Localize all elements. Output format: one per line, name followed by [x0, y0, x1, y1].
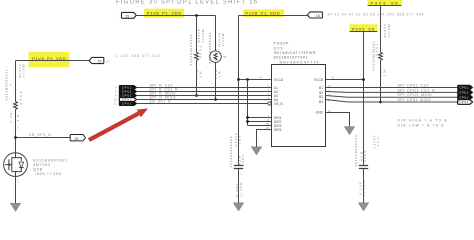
svg-text:CPU1: CPU1	[460, 87, 469, 90]
connector tag SPI_CPU1_MOSI	[458, 95, 473, 100]
net highlight P1V8_P1_VDD (top left)	[144, 9, 184, 18]
svg-text:15: 15	[125, 14, 129, 18]
svg-text:2N7002: 2N7002	[33, 163, 50, 167]
svg-text:-,60V,+/-20V: -,60V,+/-20V	[33, 172, 62, 176]
wire P3V3 drop to VCCB and cap	[363, 32, 365, 165]
wire DIR1	[248, 117, 272, 119]
transistor Q3B 2N7002	[4, 153, 28, 177]
net highlight P1V8_P1_VDD (top mid)	[243, 9, 284, 17]
svg-text:16V: 16V	[238, 136, 242, 145]
svg-text:Q3B: Q3B	[33, 168, 43, 172]
svg-text:6013B0008101: 6013B0008101	[5, 69, 9, 100]
ground (C1727)	[358, 203, 369, 211]
ground (GND pin)	[344, 127, 355, 135]
ground (C1726)	[233, 203, 244, 211]
svg-text:VCCA: VCCA	[274, 78, 284, 82]
net highlight P3V3_S5 (right)	[350, 24, 378, 32]
wire EN_DP1_N	[137, 103, 268, 105]
svg-text:SPI_CPU1_CLK: SPI_CPU1_CLK	[398, 84, 430, 88]
node VCCA dot 1	[237, 78, 240, 81]
resistor R1676 10K (circled)	[215, 16, 217, 100]
svg-text:B3: B3	[319, 95, 323, 99]
connector tag SPI_CPU1_CS1_N	[458, 90, 473, 95]
svg-text:6011B0007901: 6011B0007901	[33, 158, 67, 162]
connector tag SPI_R_MOSI	[119, 94, 136, 98]
svg-text:1/16W: 1/16W	[201, 29, 205, 42]
wire P3V3 top stub	[368, 5, 402, 7]
wire P1V8 drop to VCCA and cap	[238, 16, 240, 165]
svg-text:+/-10%: +/-10%	[239, 182, 243, 197]
svg-text:13: 13	[331, 76, 335, 80]
svg-text:1%: 1%	[383, 70, 387, 76]
wire SPI_CPU1_CS1_N	[326, 91, 458, 94]
off-page tag EN_DP1_N	[70, 135, 85, 141]
pin OE_N bubble	[268, 102, 271, 105]
svg-text:P1V8_P1_VDD: P1V8_P1_VDD	[147, 11, 181, 16]
ground (DIR4)	[251, 147, 262, 155]
connector tag SPI_R_MISO	[119, 98, 136, 102]
svg-text:38: 38	[223, 55, 227, 59]
svg-text:1/16W: 1/16W	[221, 33, 225, 46]
svg-text:CPU1: CPU1	[460, 92, 469, 95]
capacitor C1727 0.1UF	[359, 166, 368, 169]
svg-text:6013A0034403: 6013A0034403	[229, 136, 233, 167]
annotation red arrow	[89, 113, 139, 140]
wire VCCB	[326, 79, 364, 81]
resistor R1675 10K pull-up	[196, 16, 198, 96]
svg-text:P3V3_S5: P3V3_S5	[352, 26, 374, 31]
node junction dot on SPI_R_MOSI	[195, 94, 198, 97]
svg-text:SPI_CPU1_MOSI: SPI_CPU1_MOSI	[398, 93, 432, 97]
svg-text:DIR4: DIR4	[274, 128, 282, 132]
svg-text:15: 15	[316, 14, 320, 18]
node junction dot on B4	[379, 101, 382, 104]
svg-text:SN74AVC4T774: SN74AVC4T774	[280, 61, 319, 65]
svg-text:B1: B1	[319, 86, 323, 90]
svg-text:27: 27	[106, 60, 110, 64]
node EN junction dot	[14, 136, 17, 139]
svg-text:DIR HIGH = A TO B: DIR HIGH = A TO B	[398, 119, 448, 123]
resistor R1674 4.7K	[14, 102, 18, 110]
wire left vertical rail	[15, 61, 17, 153]
wire DIR4 to ground	[257, 130, 272, 147]
svg-text:GND: GND	[316, 111, 324, 115]
resistor R1643 10K pull-up	[380, 6, 382, 103]
wire SPI_CPU1_MISO	[326, 100, 458, 103]
connector tag EN_DP1_N	[119, 102, 136, 106]
svg-text:1%: 1%	[218, 71, 222, 77]
wire P1V8 top-mid	[239, 15, 308, 17]
svg-text:EN_DP1_N: EN_DP1_N	[150, 99, 172, 103]
node VCCB dot	[362, 78, 365, 81]
connector tag SPI_CPU1_MISO	[458, 100, 473, 105]
off-page tag 15 (top left)	[122, 12, 137, 18]
svg-text:14: 14	[259, 76, 263, 80]
svg-text:CPU1: CPU1	[122, 103, 132, 106]
svg-text:1%: 1%	[16, 115, 20, 121]
wire SPI_R_CLK	[137, 87, 272, 89]
wire SPI_R_MISO	[137, 99, 272, 101]
svg-text:1/16W: 1/16W	[22, 64, 26, 77]
wire SPI_CPU1_MOSI	[326, 96, 458, 98]
svg-text:6013A0008101: 6013A0008101	[189, 34, 193, 65]
svg-text:37 41 44 47 52 55 58 104 252 3: 37 41 44 47 52 55 58 104 252 368 377 346	[328, 13, 424, 17]
wire DIR2	[248, 121, 272, 123]
connector tag SPI_R_CLK	[119, 86, 136, 90]
svg-text:P1V8_P1_VDD: P1V8_P1_VDD	[246, 11, 280, 16]
wire source to ground	[15, 177, 17, 204]
wire SPI_R_MOSI	[137, 95, 272, 97]
svg-text:6013B0068101: 6013B0068101	[208, 32, 212, 63]
svg-text:+/-10%: +/-10%	[362, 181, 366, 196]
wire SPI_CPU1_CLK	[326, 87, 458, 89]
node junction dot on SPI_R_MISO	[214, 98, 217, 101]
svg-text:6013A0034403: 6013A0034403	[354, 135, 358, 166]
wire GND pin	[326, 113, 350, 127]
wire SPI_R_CS1_N	[137, 91, 272, 93]
capacitor C1726 0.1UF	[234, 166, 243, 169]
IC U23 SN74AVC4T774	[272, 65, 326, 147]
svg-text:CPU1: CPU1	[460, 96, 469, 99]
svg-text:VCCB: VCCB	[314, 78, 324, 82]
wire P3V3 stub	[350, 31, 378, 33]
svg-text:CPU1: CPU1	[460, 101, 469, 104]
svg-text:1/16W: 1/16W	[387, 24, 391, 37]
svg-text:EN_DP1_N: EN_DP1_N	[29, 133, 51, 137]
svg-text:12: 12	[113, 102, 117, 106]
off-page tag 15 (top mid)	[307, 12, 322, 18]
connector tag SPI_CPU1_CLK	[458, 85, 473, 90]
svg-text:4.7K: 4.7K	[9, 113, 13, 123]
wire DIR3	[248, 125, 272, 127]
net highlight P3V3_S5 (top right, clipped)	[368, 0, 402, 5]
wire P1V8 left horizontal	[16, 60, 90, 62]
svg-text:1%: 1%	[199, 71, 203, 77]
svg-text:B4: B4	[319, 100, 323, 104]
svg-text:15: 15	[74, 137, 78, 141]
wire VCCA	[239, 79, 272, 81]
svg-text:6011B01527401: 6011B01527401	[274, 55, 308, 60]
ground (under Q3B)	[10, 203, 21, 211]
svg-text:16V: 16V	[376, 138, 380, 147]
svg-text:OE_N: OE_N	[274, 102, 284, 106]
node junction dot R1675	[195, 14, 198, 17]
off-page tag 15 (left mid)	[89, 57, 104, 63]
svg-text:15: 15	[97, 60, 101, 64]
wire EN_DP1_N	[16, 137, 71, 139]
svg-text:SPI_CPU1_CS1_N: SPI_CPU1_CS1_N	[398, 88, 436, 92]
svg-text:P3V3_S5: P3V3_S5	[371, 0, 398, 5]
connector tag SPI_R_CS1_N	[119, 90, 136, 94]
wire P1V8 top-left rail	[136, 15, 215, 17]
svg-text:SPI_CPU1_MISO: SPI_CPU1_MISO	[398, 98, 431, 102]
wire DIR pull-up vertical	[247, 80, 249, 126]
net highlight P1V8_P1_VDD (left)	[29, 52, 70, 67]
node VCCA dot 2	[246, 78, 249, 81]
svg-text:1 252 268 377 346: 1 252 268 377 346	[116, 54, 160, 58]
